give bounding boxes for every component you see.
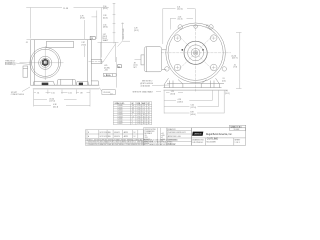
svg-text:±.01: ±.01 [161, 133, 164, 135]
svg-text:11.38: 11.38 [63, 8, 69, 10]
table frame [113, 102, 151, 125]
keyway vertical dim [118, 23, 131, 47]
svg-text:ECO 12345: ECO 12345 [100, 132, 108, 134]
svg-text:UNLESS NOTED: UNLESS NOTED [144, 129, 157, 131]
svg-text:46: 46 [148, 123, 150, 125]
table rows [118, 105, 150, 125]
shell seam left [33, 40, 35, 85]
svg-text:SJ: SJ [134, 132, 136, 134]
svg-text:APPR: APPR [124, 131, 129, 134]
svg-text:DATE 04/06/11: DATE 04/06/11 [168, 139, 178, 142]
right base step [89, 81, 99, 85]
svg-text:45°: 45° [206, 25, 209, 27]
svg-text:LEESON: LEESON [194, 134, 202, 136]
right foot slot (dark) [79, 83, 83, 86]
left side tab [23, 66, 28, 77]
svg-text:SHEET: SHEET [235, 139, 242, 141]
svg-text:CONDUIT HOLE: CONDUIT HOLE [11, 94, 25, 96]
bolt hole upper-left [174, 35, 181, 42]
connection diagram callout box [102, 90, 116, 95]
svg-text:101654: 101654 [118, 116, 123, 118]
end bell circle outer [30, 48, 61, 79]
hub circle [39, 56, 52, 69]
svg-text:01/04/11: 01/04/11 [114, 132, 120, 134]
svg-text:.88: .88 [134, 63, 136, 65]
svg-text:4.6: 4.6 [143, 105, 145, 107]
svg-text:1.5: 1.5 [132, 116, 134, 118]
svg-text:[127.0]: [127.0] [191, 107, 197, 109]
svg-text:1 OF 1: 1 OF 1 [235, 142, 240, 144]
svg-text:REL: REL [108, 136, 111, 138]
left foot gussets [165, 78, 169, 87]
left foot slot (dark) [42, 83, 49, 86]
svg-text:6.6: 6.6 [143, 110, 145, 112]
svg-text:3/16 KEYWAY: 3/16 KEYWAY [122, 27, 125, 39]
diagonal centerline 1 [179, 36, 213, 70]
svg-text:-.001: -.001 [104, 70, 108, 72]
overall length dim line [26, 7, 62, 9]
base bottom lines [33, 84, 100, 86]
svg-text:1725: 1725 [137, 114, 141, 116]
dim row 3 [34, 104, 51, 106]
svg-text:±1/64: ±1/64 [161, 139, 165, 141]
svg-text:[70.6]: [70.6] [80, 18, 85, 20]
svg-text:SEE NOTE 5 AND TABLE: SEE NOTE 5 AND TABLE [133, 90, 154, 93]
svg-text:RPM: RPM [137, 103, 141, 105]
svg-text:15.8: 15.8 [143, 119, 146, 121]
svg-text:.34: .34 [37, 92, 39, 94]
svg-text:1725: 1725 [137, 105, 141, 107]
svg-text:NDL3538/B: NDL3538/B [207, 141, 217, 143]
left foot profile [34, 82, 55, 86]
top lug [194, 25, 198, 29]
svg-text:19: 19 [148, 107, 150, 109]
svg-text:5.2: 5.2 [143, 107, 145, 109]
svg-text:±2°: ±2° [161, 137, 164, 139]
svg-text:05/02/10: 05/02/10 [114, 136, 120, 138]
shell seam right [87, 40, 89, 85]
svg-text:APPR: APPR [124, 135, 129, 138]
rim lug lower-right [222, 67, 226, 71]
svg-text:OUTLINE: OUTLINE [207, 137, 219, 141]
rim lug lower-left [165, 67, 169, 71]
svg-text:19.5: 19.5 [143, 121, 146, 123]
centerline vertical [195, 21, 197, 92]
svg-text:1725: 1725 [137, 112, 141, 114]
svg-text:WT: WT [148, 103, 150, 105]
svg-text:DRAWING NO.: DRAWING NO. [192, 138, 205, 141]
svg-text:CATALOG NO.: CATALOG NO. [115, 102, 126, 105]
svg-text:1725: 1725 [137, 116, 141, 118]
svg-text:SHAFT: SHAFT [103, 39, 110, 42]
svg-text:DRAWN BY: DRAWN BY [168, 128, 176, 131]
conduit box [144, 47, 162, 72]
flag note box (dark) [90, 37, 95, 40]
svg-text:AMP: AMP [142, 102, 145, 105]
svg-text:[31.8]: [31.8] [171, 94, 176, 96]
svg-text:24.0: 24.0 [143, 123, 146, 125]
svg-text:⌖ .004 A: ⌖ .004 A [104, 74, 111, 77]
0.31 dim top-left [27, 38, 31, 40]
svg-text:C4D17NK10C: C4D17NK10C [192, 142, 204, 144]
svg-text:1/4: 1/4 [132, 105, 134, 107]
svg-text:[65.0]: [65.0] [103, 8, 108, 10]
svg-text:101651: 101651 [118, 110, 123, 112]
svg-text:24: 24 [148, 112, 150, 114]
svg-text:.34 [8.6] DIA: .34 [8.6] DIA [140, 84, 151, 87]
right side vertical dim [236, 33, 242, 89]
svg-text:1.50: 1.50 [51, 92, 54, 94]
ext lines below base [33, 90, 35, 107]
svg-text:101652: 101652 [118, 112, 123, 114]
center rings [184, 41, 207, 64]
svg-text:1/3: 1/3 [132, 107, 134, 109]
svg-text:A: A [88, 135, 89, 138]
right view top dims [163, 9, 215, 44]
svg-text:.XX: .XX [144, 135, 146, 137]
fan cover outer circle [166, 23, 226, 83]
centerline horizontal [161, 52, 231, 54]
svg-text:.31: .31 [25, 42, 27, 44]
right foot profile [76, 82, 88, 86]
row 4 [164, 112, 189, 114]
svg-text:21: 21 [148, 110, 150, 112]
bolt hole upper-right [210, 35, 217, 42]
svg-text:[52.3]: [52.3] [178, 19, 183, 21]
svg-text:SCREWS (4): SCREWS (4) [5, 64, 16, 66]
sub dim ext line [96, 11, 98, 40]
svg-text:CATALOG NO.: CATALOG NO. [230, 125, 242, 128]
dim row 1 [34, 92, 36, 94]
svg-text:NPT: NPT [134, 67, 137, 69]
keyway flat leader diagonal [102, 44, 116, 64]
svg-text:13.0: 13.0 [143, 116, 146, 118]
svg-text:[72.9]: [72.9] [81, 44, 86, 46]
svg-text:[39.6]: [39.6] [103, 27, 108, 29]
svg-text:[107.7]: [107.7] [232, 58, 238, 60]
svg-text:27: 27 [148, 114, 150, 116]
base plate lines [164, 87, 222, 89]
right view bottom dims [164, 91, 224, 114]
stacked dim line vertical [113, 3, 115, 44]
svg-text:CHECKED R.SMITH 01/11: CHECKED R.SMITH 01/11 [168, 132, 186, 134]
rim lug upper-right [209, 25, 213, 29]
svg-text:1725: 1725 [137, 110, 141, 112]
svg-text:1.06: 1.06 [68, 92, 71, 94]
rim lug upper-left [178, 25, 182, 29]
dim row 2 [34, 99, 47, 101]
svg-text:1725: 1725 [137, 123, 141, 125]
svg-text:B: B [88, 132, 89, 134]
svg-text:[32.5]: [32.5] [134, 30, 139, 32]
svg-text:HP: HP [132, 103, 134, 105]
shaft ext dim line [98, 41, 119, 43]
svg-text:101649: 101649 [118, 105, 123, 107]
svg-text:1: 1 [132, 114, 133, 116]
datum A box [118, 65, 122, 68]
svg-text:[149.4]: [149.4] [190, 114, 196, 116]
svg-text:40: 40 [148, 121, 150, 123]
row feet slots dim [166, 91, 170, 93]
hub circle inner [41, 58, 50, 67]
row 2 [164, 99, 176, 101]
svg-text:APPROVED D.LEE: APPROVED D.LEE [168, 135, 181, 138]
box to shell connection [162, 49, 167, 51]
svg-text:FINISH: FINISH [144, 143, 149, 145]
svg-text:125: 125 [161, 141, 164, 143]
svg-text:[3.3]: [3.3] [222, 80, 226, 82]
svg-text:8.4: 8.4 [143, 112, 145, 114]
svg-text:[111.3]: [111.3] [53, 106, 59, 108]
svg-text:35: 35 [148, 119, 150, 121]
conduit hub leader [135, 59, 142, 61]
svg-text:101656: 101656 [118, 121, 123, 123]
svg-text:Regal Beloit America, Inc.: Regal Beloit America, Inc. [206, 133, 233, 136]
svg-text:2: 2 [132, 119, 133, 121]
svg-text:[112.0]: [112.0] [177, 9, 183, 11]
row 3 [164, 106, 189, 108]
svg-text:18: 18 [148, 105, 150, 107]
fan cover inner circle [168, 25, 223, 80]
svg-text:[22.4]: [22.4] [134, 65, 138, 67]
svg-text:1725: 1725 [137, 119, 141, 121]
svg-text:[108.7]: [108.7] [178, 102, 184, 104]
svg-text:[7.9]: [7.9] [234, 67, 238, 69]
shaft nut hexagon (dark) [42, 59, 49, 67]
nameplate box [46, 42, 73, 48]
svg-text:1/2: 1/2 [132, 110, 134, 112]
svg-text:101655: 101655 [118, 119, 123, 121]
svg-text:±.005: ±.005 [161, 135, 165, 137]
svg-text:.88: .88 [80, 92, 82, 94]
svg-text:31: 31 [148, 116, 150, 118]
bolt hole lower-right [210, 64, 217, 71]
diagonal centerline 2 [179, 36, 213, 70]
svg-text:10.2: 10.2 [143, 114, 146, 116]
base center bump [57, 79, 76, 85]
svg-text:101653: 101653 [118, 114, 123, 116]
svg-text:[50.3]: [50.3] [103, 17, 108, 19]
svg-text:3: 3 [132, 121, 133, 123]
bolt hole lower-left [174, 64, 181, 71]
LEESON logo (black) [192, 132, 203, 136]
crosshair horizontal [20, 62, 64, 64]
conduit hub [141, 55, 144, 65]
aux vertical dim [116, 57, 118, 88]
svg-text:5: 5 [132, 123, 133, 125]
svg-text:[127.0]: [127.0] [50, 101, 56, 103]
svg-text:1725: 1725 [137, 107, 141, 109]
45 degree arc dim [206, 27, 215, 34]
svg-text:101657: 101657 [118, 123, 123, 125]
end bell circle inner [32, 49, 59, 76]
svg-text:.XXX: .XXX [144, 137, 147, 139]
svg-text:1725: 1725 [137, 121, 141, 123]
svg-text:REL: REL [108, 132, 111, 134]
svg-text:[19.1]: [19.1] [225, 93, 230, 95]
crosshair vertical [44, 46, 46, 80]
right foot gussets [201, 80, 206, 88]
motor body outline [31, 40, 92, 85]
svg-text:3/4: 3/4 [132, 112, 134, 114]
svg-text:SJ: SJ [134, 136, 136, 138]
2.87 dim ext [83, 46, 85, 57]
gdt feature frame [103, 74, 116, 77]
bolt hole crosses [176, 36, 216, 69]
catalog no box [230, 125, 246, 130]
shaft centerline [89, 61, 105, 63]
shaft extension [91, 60, 101, 64]
svg-text:101650: 101650 [118, 107, 123, 109]
svg-text:ECO 10231: ECO 10231 [100, 136, 108, 138]
svg-text:110088: 110088 [234, 129, 240, 131]
